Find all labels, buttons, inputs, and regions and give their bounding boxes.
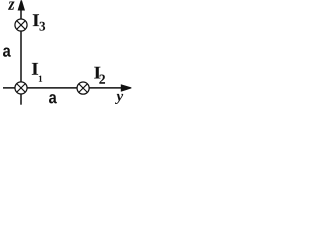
label I1: letter I [32, 63, 38, 75]
label I2: subscript 2 [99, 75, 105, 84]
label z (axis name) [8, 1, 15, 9]
label I1: subscript 1 [39, 76, 42, 82]
z axis arrowhead [18, 0, 25, 10]
y axis wire [3, 87, 123, 89]
current symbol I3 (current into page) on z axis [15, 19, 27, 31]
label a (distance on z axis) [3, 47, 11, 56]
current symbol I1 (current into page) at origin [15, 82, 27, 94]
z axis wire [20, 9, 22, 105]
label I3: letter I [33, 14, 39, 26]
label I3: subscript 3 [40, 22, 46, 31]
label a (distance on y axis) [49, 94, 57, 103]
y axis arrowhead [121, 84, 132, 92]
label y (axis name) [115, 94, 123, 104]
current symbol I2 (current into page) on y axis [77, 82, 89, 94]
label I2: letter I [94, 67, 100, 79]
